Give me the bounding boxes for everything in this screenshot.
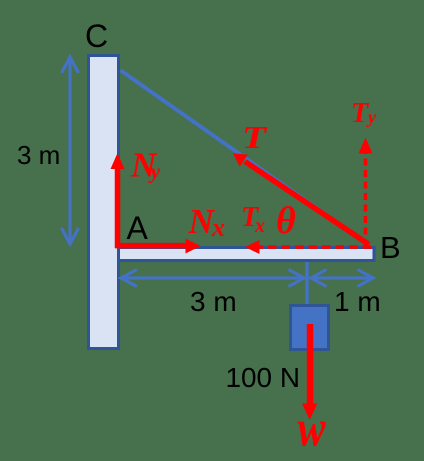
svg-text:y: y <box>366 107 377 127</box>
dashed component arrow Tx <box>245 240 371 254</box>
svg-text:θ: θ <box>276 200 296 242</box>
svg-text:w: w <box>298 401 326 458</box>
dimension arrow 3 m vertical (left) <box>62 57 79 244</box>
svg-text:3 m: 3 m <box>190 286 237 317</box>
svg-text:T: T <box>242 119 268 155</box>
weight block <box>291 306 329 350</box>
svg-text:100 N: 100 N <box>226 362 301 393</box>
weight arrow w <box>302 324 317 420</box>
svg-text:B: B <box>380 230 401 265</box>
hanger cord <box>305 262 309 305</box>
beam AB (horizontal member) <box>119 248 375 261</box>
svg-text:3 m: 3 m <box>17 140 60 170</box>
force arrow Nx <box>115 239 201 254</box>
tension arrow T <box>233 153 369 244</box>
cable C to B <box>121 70 370 245</box>
dimension arrow 1 m horizontal (below beam) <box>311 270 373 287</box>
svg-text:C: C <box>85 18 108 54</box>
svg-text:1 m: 1 m <box>334 286 381 317</box>
dashed component arrow Ty <box>359 138 373 247</box>
svg-text:x: x <box>211 213 225 242</box>
dimension arrow 3 m horizontal (below beam) <box>121 270 304 287</box>
post AC (vertical member) <box>89 56 119 349</box>
svg-text:x: x <box>254 215 265 237</box>
force arrow Ny <box>111 153 125 248</box>
svg-text:A: A <box>127 210 149 246</box>
